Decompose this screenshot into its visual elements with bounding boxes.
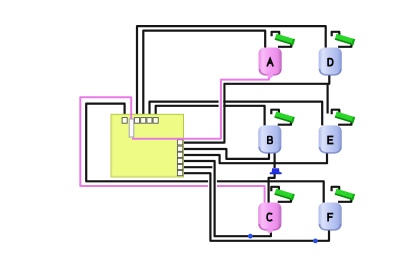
wire: inner top run T3 to tank A top (143, 31, 265, 118)
wire: tank D bottom outlet (327, 84, 329, 114)
valve C green handle (274, 189, 295, 201)
valve D bracket (332, 32, 352, 47)
terminal T1 (122, 118, 127, 124)
wire: W5 short stub (184, 166, 214, 168)
wire: W4 terminal long run to tank C bottom (184, 160, 271, 237)
flow sensor S2 blue dot on F line (313, 239, 318, 244)
tank F (319, 203, 342, 231)
wire: T5 run to tank B top feed (156, 106, 265, 126)
pump P1 under tank B (270, 168, 282, 174)
wire: W2 terminal to tank B bottom-left outlet (184, 149, 270, 159)
terminal R5 (177, 164, 182, 169)
wire: W6 terminal long run to tank F bottom (184, 172, 330, 241)
tank A (259, 48, 282, 79)
wire: tank B centre drain through pump to tank C top (269, 153, 275, 203)
controller slot (129, 119, 134, 137)
tank C (258, 203, 281, 234)
pink wire: stub into box slot (130, 113, 132, 120)
wire: T4 run to tank E top feed (150, 102, 323, 126)
terminal T4 (147, 118, 152, 124)
valve A green handle (275, 34, 296, 46)
terminal T2 (134, 118, 139, 124)
valve F bracket (332, 187, 352, 202)
terminal R1 (177, 140, 182, 145)
terminal R4 (177, 158, 182, 163)
valve C bracket (271, 187, 291, 202)
tank E (319, 125, 342, 152)
tank B (258, 125, 281, 152)
valve A bracket (272, 32, 292, 47)
controller U1: yellow PLC box (111, 114, 184, 177)
valve E bracket (332, 110, 352, 125)
wire: black left loop T1 up, around left, bottom run to tank F top (86, 104, 324, 203)
valve D green handle (335, 34, 356, 46)
tank D (319, 48, 342, 76)
wire: outer top run T2 to tank D top (137, 26, 326, 118)
valve E green handle (335, 112, 356, 124)
terminal R6 (177, 171, 182, 176)
pink wire: left loop from box top around left side to tank C top (80, 97, 264, 202)
valve F green handle (335, 189, 356, 201)
wire: W3 terminal to tank E bottom outlet (184, 153, 328, 164)
valve B bracket (271, 110, 291, 125)
valve B green handle (274, 112, 295, 124)
wire: W1 terminal to D bottom outlet line and valve E drop (184, 75, 330, 143)
flow sensor S1 blue dot on C line (248, 234, 253, 239)
terminal R2 (177, 146, 182, 151)
pink wire: slot to tank A bottom outlet (with white casing over black) (132, 74, 269, 139)
terminal T3 (141, 118, 146, 124)
terminal R3 (177, 152, 182, 157)
terminal T5 (153, 118, 158, 124)
